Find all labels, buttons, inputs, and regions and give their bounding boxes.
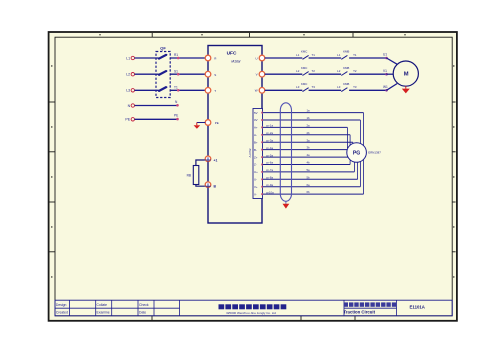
svg-text:T3: T3: [353, 85, 357, 89]
node L2 terminal: [131, 73, 134, 76]
zone label dot right y=66: [453, 65, 454, 66]
breaker QF pole 3 contact: [159, 87, 167, 91]
wire KMB to motor: [349, 89, 386, 91]
wire B- to PG: [263, 149, 349, 151]
node N terminal: [131, 104, 134, 107]
zone label dot left y=66: [51, 65, 52, 66]
junction dot R1: [177, 57, 180, 60]
svg-text:V-: V-: [254, 192, 257, 196]
svg-text:PE: PE: [215, 121, 219, 125]
zone tick bottom x=152.0: [151, 316, 153, 320]
ground symbol at PE: [196, 123, 198, 126]
svg-text:KMC: KMC: [301, 82, 307, 86]
wire KMC to KMB: [309, 73, 342, 75]
wire W1 lead into motor: [387, 84, 398, 91]
node L3 terminal: [131, 89, 134, 92]
wire 5V to PG: [263, 112, 364, 114]
svg-text:PE: PE: [174, 113, 178, 117]
svg-text:cn-3a: cn-3a: [266, 138, 273, 142]
title block vertical x=344: [343, 300, 345, 316]
pin U of U1: [259, 55, 265, 61]
wire V+ to PG: [263, 186, 361, 188]
svg-text:cn-4a: cn-4a: [266, 146, 273, 150]
svg-text:L3: L3: [126, 89, 130, 93]
svg-text:N: N: [128, 104, 131, 108]
wire QF to S pin: [170, 73, 205, 75]
zone tick right y=251.8: [452, 251, 455, 253]
contactor KMB contact 2: [341, 72, 347, 76]
sheet background: [49, 32, 457, 321]
shielded cable W1: [280, 103, 291, 202]
wire W to contact KMC: [265, 89, 303, 91]
wire KMC to KMB: [309, 57, 342, 59]
svg-text:Traction Circuit: Traction Circuit: [344, 310, 376, 315]
wire U- to PG: [263, 178, 358, 180]
svg-text:Design: Design: [56, 303, 67, 307]
wire N: [135, 105, 179, 107]
svg-text:5b: 5b: [307, 175, 311, 179]
svg-text:+1: +1: [214, 159, 218, 163]
svg-text:T1: T1: [353, 53, 357, 57]
svg-text:Created: Created: [56, 311, 68, 315]
junction dot PE: [176, 118, 179, 121]
junction dot W1: [385, 89, 388, 92]
svg-text:V+: V+: [254, 185, 258, 189]
zone tick top x=152.2: [151, 33, 153, 37]
junction dot T1: [177, 89, 180, 92]
contactor KMC contact 2: [303, 72, 309, 76]
svg-text:V1: V1: [383, 69, 387, 73]
svg-text:L2: L2: [337, 69, 341, 73]
svg-text:2b: 2b: [307, 131, 311, 135]
svg-text:PG: PG: [353, 151, 361, 157]
encoder PG: [347, 143, 367, 163]
wire QF to T pin: [170, 89, 205, 91]
wire vertical to PG top x=350.1: [349, 135, 351, 145]
wire vertical bus outer: [363, 113, 365, 195]
ground symbol under motor: [405, 86, 407, 88]
svg-text:RB: RB: [187, 174, 191, 178]
svg-text:M: M: [404, 72, 409, 78]
title block horizontal divider left: [55, 307, 180, 309]
zone label dot right y=127: [453, 126, 454, 127]
svg-text:Z-: Z-: [254, 163, 257, 167]
inverter U1 UFC box: [208, 46, 262, 224]
zone label dot top x=202: [201, 34, 202, 35]
wire V- to PG: [263, 193, 364, 195]
title block outline: [55, 300, 452, 316]
svg-text:UFC: UFC: [227, 50, 237, 56]
wire vertical to PG bottom x=357.6: [357, 162, 359, 179]
svg-text:1b: 1b: [307, 116, 311, 120]
svg-text:T3: T3: [312, 85, 316, 89]
wire A- to PG: [263, 134, 351, 136]
zone label dot left y=277: [51, 276, 52, 277]
title block vertical x=69.4: [68, 300, 70, 316]
zone label dot right y=277: [453, 276, 454, 277]
wire PE pin to ground: [197, 122, 206, 124]
circuit breaker QF dashed box: [156, 52, 170, 98]
title block vertical x=179.5: [179, 300, 181, 316]
svg-text:2a: 2a: [307, 124, 311, 128]
zone tick left y=102: [50, 101, 56, 103]
wire QF to R pin: [170, 57, 205, 59]
svg-text:B-: B-: [254, 148, 257, 152]
wire A+ to PG: [263, 126, 348, 128]
pin B of U1: [205, 182, 211, 188]
zone label dot right y=177: [453, 176, 454, 177]
zone label dot right y=227: [453, 226, 454, 227]
svg-text:KMC: KMC: [301, 50, 307, 54]
pin S of U1: [205, 71, 211, 77]
svg-text:Check: Check: [139, 303, 149, 307]
pin V of U1: [259, 71, 265, 77]
contactor KMC contact 1: [303, 55, 309, 59]
wire B+ to PG: [263, 141, 353, 143]
svg-text:L1: L1: [296, 53, 300, 57]
svg-text:Z+: Z+: [254, 155, 258, 159]
svg-text:cn-8a: cn-8a: [266, 176, 273, 180]
svg-text:PE: PE: [125, 118, 130, 122]
svg-text:L1: L1: [126, 56, 130, 60]
svg-text:A+: A+: [254, 126, 258, 130]
svg-text:E1101A: E1101A: [410, 305, 425, 310]
svg-text:325000 Wenzhou Jine Jongly Co.: 325000 Wenzhou Jine Jongly Co. Ltd: [226, 311, 276, 315]
svg-text:4a: 4a: [307, 153, 311, 157]
svg-text:cn-2a: cn-2a: [266, 131, 273, 135]
svg-text:3a: 3a: [307, 138, 311, 142]
wire KMB to motor: [349, 73, 386, 75]
wire Z- to PG: [263, 164, 351, 166]
svg-text:6a: 6a: [307, 183, 311, 187]
svg-text:KMB: KMB: [343, 82, 349, 86]
svg-text:S: S: [214, 73, 216, 77]
svg-text:L2: L2: [126, 73, 130, 77]
wire vertical to PG top x=347.4: [346, 127, 348, 148]
wire vertical to PG bottom x=350.1: [349, 160, 351, 164]
svg-text:U: U: [255, 56, 257, 60]
svg-text:5a: 5a: [307, 168, 311, 172]
svg-text:L2: L2: [296, 69, 300, 73]
svg-text:L3: L3: [337, 85, 341, 89]
inner drawing frame: [55, 37, 452, 316]
title block vertical x=396.5: [396, 300, 398, 316]
pin PE of U1: [205, 120, 211, 126]
zone tick right y=202: [452, 201, 455, 203]
svg-text:Examine: Examine: [97, 311, 110, 315]
junction dot S1: [177, 73, 180, 76]
zone tick left y=202: [50, 201, 56, 203]
breaker QF pole 2 contact: [159, 71, 167, 75]
wire KMB to motor: [349, 57, 386, 59]
zone tick top x=249.5: [249, 33, 251, 37]
svg-text:T: T: [214, 89, 216, 93]
title block vertical x=111.7: [111, 300, 113, 316]
svg-text:ERN1387: ERN1387: [368, 151, 381, 155]
zone tick top x=353.0: [352, 33, 354, 37]
node L1 terminal: [131, 56, 134, 59]
node PE terminal: [131, 118, 134, 121]
svg-text:A-CN2: A-CN2: [248, 148, 252, 157]
svg-text:cn10a: cn10a: [266, 190, 274, 194]
svg-text:QF: QF: [160, 46, 166, 51]
zone tick right y=151.8: [452, 151, 455, 153]
wire +1 to resistor: [196, 160, 205, 166]
svg-text:cn-5a: cn-5a: [266, 153, 273, 157]
pin R of U1: [205, 55, 211, 61]
zone tick bottom x=355.0: [354, 316, 356, 320]
wire V to contact KMC: [265, 73, 303, 75]
zone label dot top x=100: [99, 34, 100, 35]
wire L3 to QF: [135, 89, 159, 91]
svg-text:0V: 0V: [254, 118, 258, 122]
pin T of U1: [205, 88, 211, 94]
connector A-CN2 block: [253, 109, 263, 199]
zone tick right y=102: [452, 101, 455, 103]
wire 0V to PG: [263, 119, 361, 121]
title block vertical x=154: [153, 300, 155, 316]
svg-text:B+: B+: [254, 140, 258, 144]
contactor KMC contact 3: [303, 88, 309, 92]
svg-text:Date: Date: [139, 311, 146, 315]
svg-text:KMC: KMC: [301, 66, 307, 70]
drawing title (chinese): [344, 302, 348, 306]
zone label dot top x=304: [303, 34, 304, 35]
wire L1 to QF: [135, 57, 159, 59]
svg-text:U+: U+: [254, 170, 258, 174]
wire V1 lead into motor: [387, 73, 394, 75]
zone tick left y=151.8: [50, 151, 56, 153]
svg-text:iAStar: iAStar: [231, 59, 241, 63]
wire U+ to PG: [263, 171, 355, 173]
svg-text:KMB: KMB: [343, 50, 349, 54]
wire vertical to PG top x=352.9: [352, 142, 354, 143]
wire L2 to QF: [135, 73, 159, 75]
svg-text:L1: L1: [337, 53, 341, 57]
svg-text:W: W: [255, 89, 258, 93]
svg-text:U-: U-: [254, 178, 257, 182]
wire Z+ to PG: [263, 156, 349, 158]
zone label dot left y=127: [51, 126, 52, 127]
wire PE: [135, 118, 179, 120]
zone label dot top x=405: [404, 34, 405, 35]
svg-text:A-: A-: [254, 133, 257, 137]
wire resistor to B: [196, 185, 205, 187]
breaker QF pole 1 contact: [159, 55, 167, 59]
svg-text:cn-1a: cn-1a: [266, 124, 273, 128]
wire cable shield to ground: [285, 201, 287, 204]
svg-text:4b: 4b: [307, 161, 311, 165]
svg-text:cn-9a: cn-9a: [266, 183, 273, 187]
svg-text:L3: L3: [296, 85, 300, 89]
title block vertical x=95.7: [95, 300, 97, 316]
wire U to contact KMC: [265, 57, 303, 59]
svg-text:3b: 3b: [307, 146, 311, 150]
zone tick left y=251.8: [50, 251, 56, 253]
zone label dot left y=177: [51, 176, 52, 177]
wire vertical bus second: [359, 120, 361, 187]
svg-text:W1: W1: [383, 85, 388, 89]
title block horizontal divider title cell: [344, 307, 397, 309]
junction dot N: [176, 104, 179, 107]
wire vertical to PG bottom x=354.4: [353, 162, 355, 172]
contactor KMB contact 3: [341, 88, 347, 92]
svg-text:1a: 1a: [307, 109, 311, 113]
svg-text:R1: R1: [174, 53, 178, 57]
title block vertical x=138: [137, 300, 139, 316]
svg-text:cn-7a: cn-7a: [266, 168, 273, 172]
svg-text:S1: S1: [174, 69, 178, 73]
svg-text:T1: T1: [174, 86, 178, 90]
ground symbol under cable: [283, 204, 290, 209]
svg-text:cn-6a: cn-6a: [266, 161, 273, 165]
company name (chinese): [219, 304, 225, 309]
pin W of U1: [259, 88, 265, 94]
junction dot U1: [385, 57, 388, 60]
svg-text:5V: 5V: [254, 111, 258, 115]
svg-text:T2: T2: [353, 69, 357, 73]
junction dot V1: [385, 73, 388, 76]
contactor KMB contact 1: [341, 55, 347, 59]
svg-text:T2: T2: [312, 69, 316, 73]
svg-text:Collate: Collate: [97, 303, 108, 307]
svg-text:V: V: [256, 73, 258, 77]
motor M: [393, 61, 418, 86]
resistor RB: [193, 166, 199, 185]
svg-text:6b: 6b: [307, 190, 311, 194]
wire U1 lead into motor: [387, 58, 398, 64]
pin +1 of U1: [205, 156, 211, 162]
svg-text:KMB: KMB: [343, 66, 349, 70]
zone label dot left y=227: [51, 226, 52, 227]
wire KMC to KMB: [309, 89, 342, 91]
svg-text:U1: U1: [383, 53, 387, 57]
zone tick bottom x=301.0: [300, 316, 302, 320]
svg-text:T1: T1: [312, 53, 316, 57]
